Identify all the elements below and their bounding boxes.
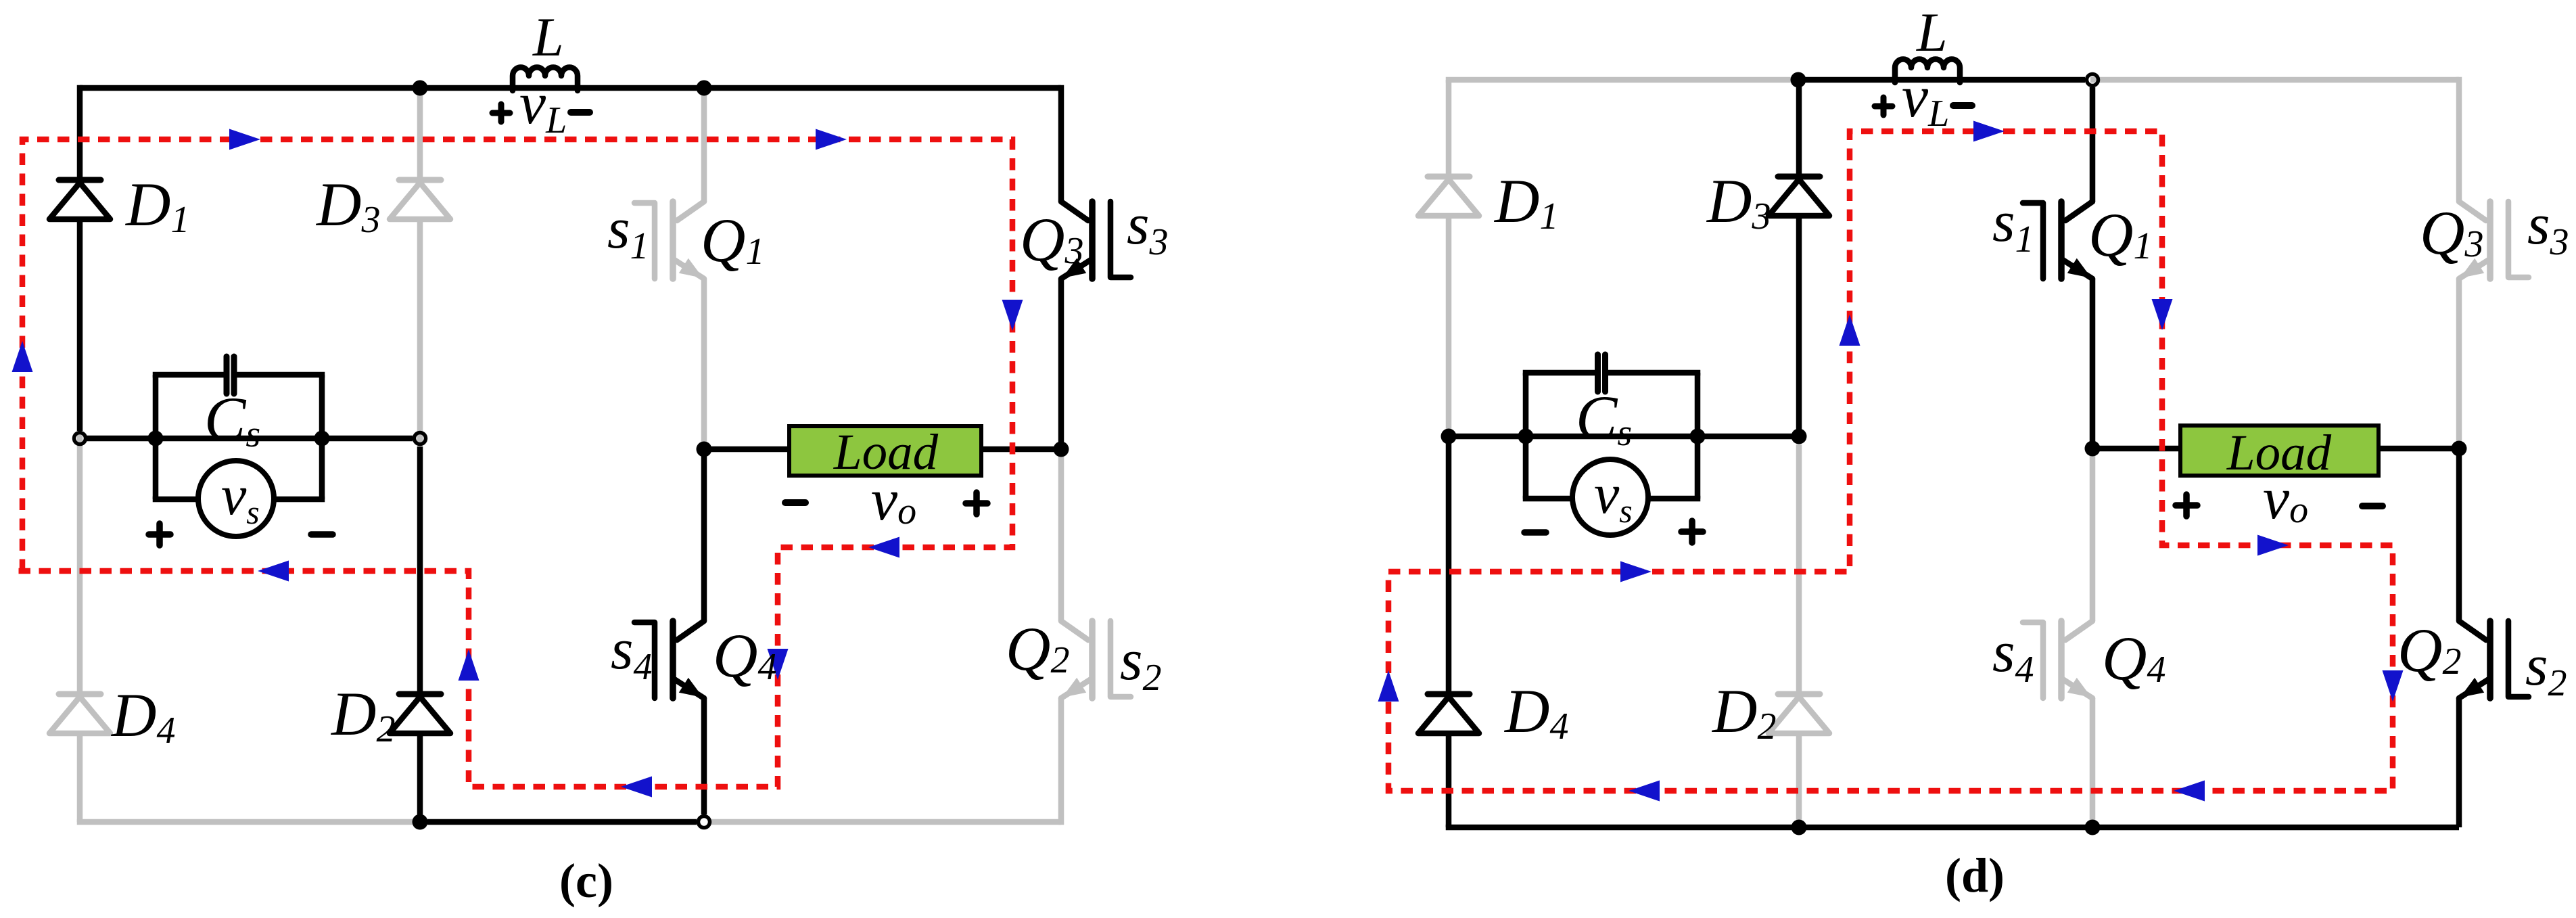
svg-text:(c): (c) xyxy=(559,854,613,908)
svg-text:L: L xyxy=(532,6,564,68)
svg-text:(d): (d) xyxy=(1945,848,2005,902)
svg-text:L: L xyxy=(1916,1,1948,63)
